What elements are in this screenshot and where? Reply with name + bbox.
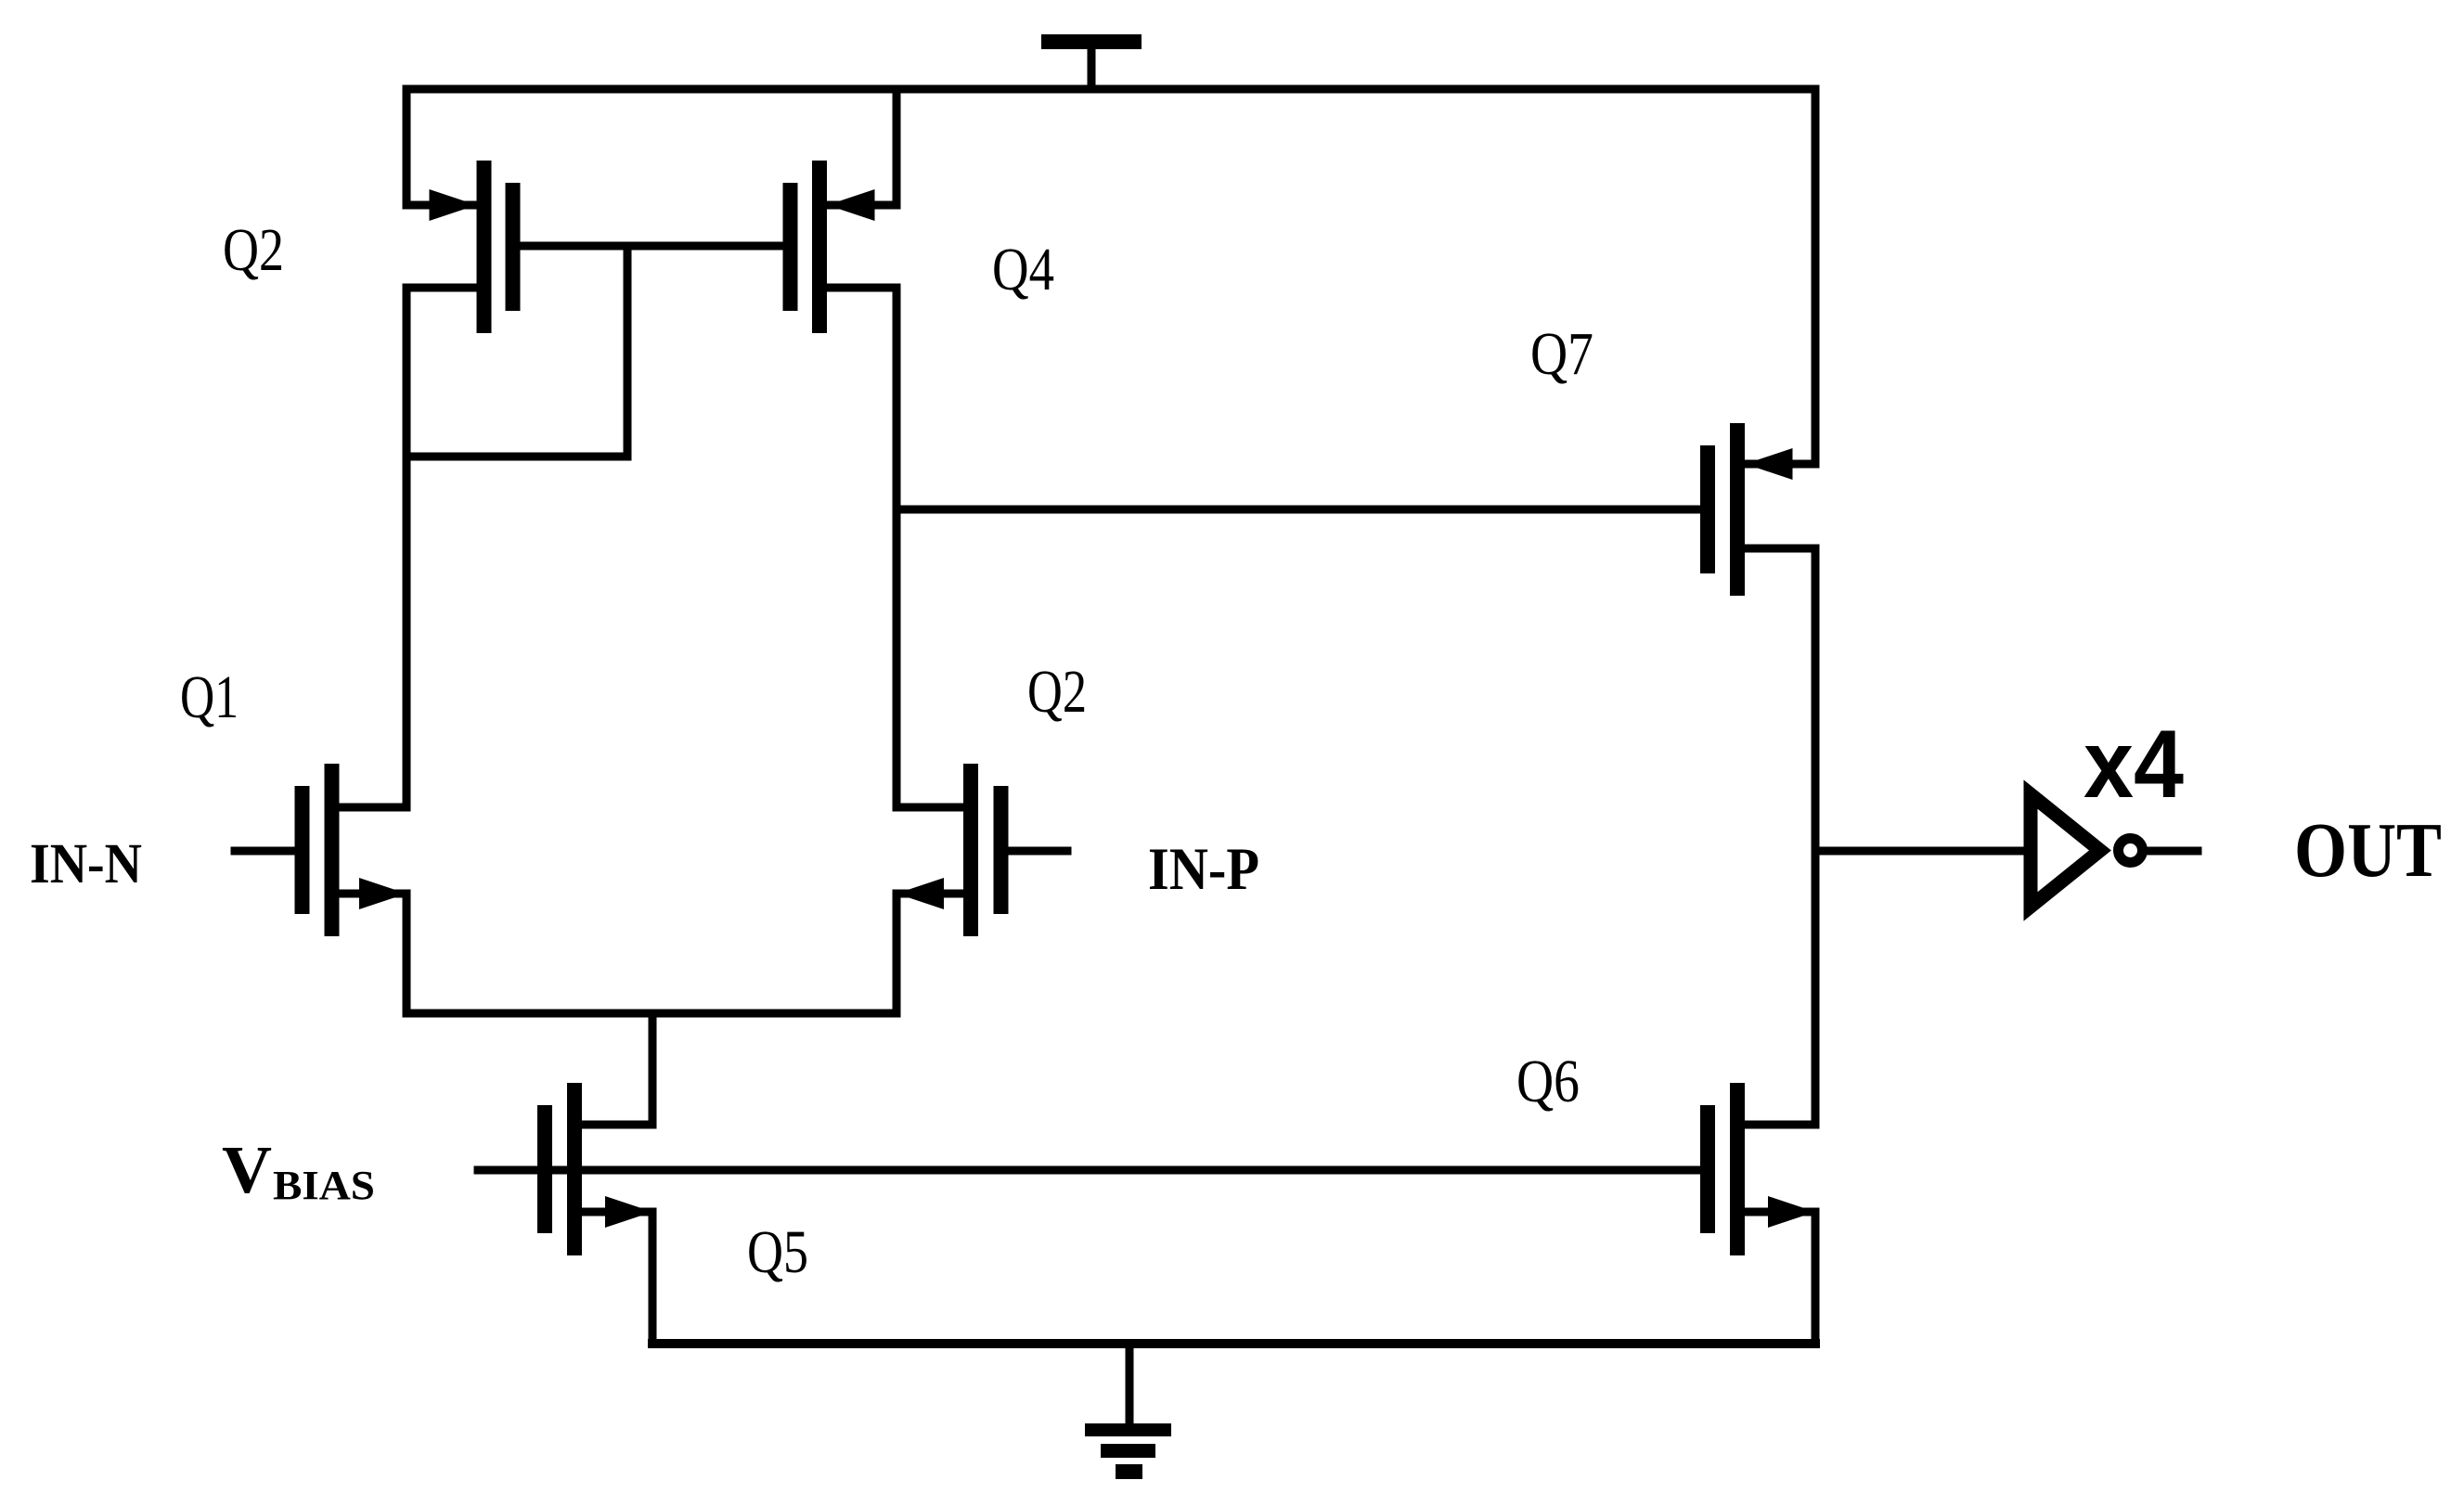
svg-text:x4: x4 xyxy=(2083,711,2184,818)
svg-text:Q2: Q2 xyxy=(1027,658,1087,726)
svg-text:Q6: Q6 xyxy=(1516,1048,1580,1115)
svg-text:Q4: Q4 xyxy=(992,236,1054,303)
svg-text:IN-P: IN-P xyxy=(1148,836,1259,903)
svg-text:BIAS: BIAS xyxy=(273,1163,375,1208)
svg-text:IN-N: IN-N xyxy=(30,833,142,895)
svg-text:Q2: Q2 xyxy=(223,216,284,284)
svg-text:Q5: Q5 xyxy=(747,1218,808,1286)
svg-text:V: V xyxy=(222,1132,272,1207)
svg-text:OUT: OUT xyxy=(2294,807,2442,894)
svg-text:Q7: Q7 xyxy=(1530,320,1593,388)
svg-text:Q1: Q1 xyxy=(180,663,239,731)
